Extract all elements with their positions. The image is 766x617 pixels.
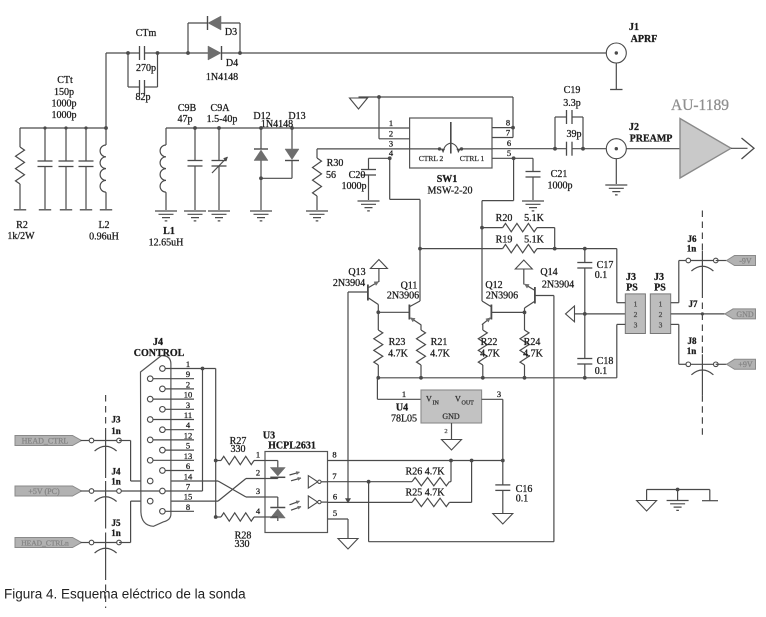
resistor R2	[19, 128, 21, 147]
svg-text:1k/2W: 1k/2W	[7, 231, 35, 242]
wire	[222, 52, 606, 54]
svg-text:4: 4	[186, 420, 191, 430]
resistor R28 330	[216, 516, 221, 518]
pin circles J4	[160, 366, 166, 372]
wire	[106, 52, 140, 54]
svg-text:4.7K: 4.7K	[523, 349, 544, 360]
svg-text:V: V	[455, 395, 461, 404]
svg-text:82p: 82p	[136, 92, 151, 103]
flag GND	[725, 309, 756, 319]
svg-text:78L05: 78L05	[391, 414, 417, 425]
svg-text:14: 14	[184, 472, 193, 482]
resistor R21 4.7K	[417, 330, 426, 365]
flag +5V (PC)	[15, 486, 82, 496]
wire J3R pin3 to J8	[671, 323, 679, 325]
capacitor CTt-2	[65, 128, 67, 161]
svg-text:4: 4	[256, 506, 261, 516]
svg-text:J1: J1	[629, 22, 639, 33]
svg-text:2: 2	[186, 379, 190, 389]
svg-text:1n: 1n	[687, 346, 697, 356]
svg-text:330: 330	[235, 539, 250, 550]
svg-text:2: 2	[659, 310, 663, 319]
svg-text:D4: D4	[226, 58, 238, 69]
svg-text:J4: J4	[112, 467, 122, 477]
capacitor CTt-3	[85, 128, 87, 161]
transistor Q14 2N3904	[534, 287, 536, 304]
svg-text:2: 2	[389, 129, 393, 139]
svg-text:CTRL 2: CTRL 2	[419, 154, 444, 163]
svg-text:12.65uH: 12.65uH	[149, 238, 184, 249]
wire U4 pin3	[482, 398, 503, 400]
dashed enclosure line right	[701, 211, 703, 251]
svg-text:PS: PS	[654, 283, 666, 294]
svg-text:HEAD_CTRL: HEAD_CTRL	[22, 437, 69, 446]
led U3 input 1	[265, 460, 278, 462]
inductor L1	[165, 128, 167, 145]
node SW1 pin4	[388, 156, 392, 160]
wire SW1 pins 7,8 ground	[492, 127, 513, 129]
svg-text:J4: J4	[153, 337, 163, 348]
svg-text:HCPL2631: HCPL2631	[268, 441, 316, 452]
svg-text:AU-1189: AU-1189	[671, 97, 729, 114]
svg-text:J7: J7	[689, 299, 699, 309]
svg-text:3: 3	[256, 486, 260, 496]
svg-text:C9A: C9A	[211, 103, 231, 114]
resistor R25 4.7K	[327, 501, 412, 503]
wire J3 pin3 feed	[616, 324, 618, 377]
wire	[626, 148, 680, 150]
svg-text:47p: 47p	[178, 114, 193, 125]
wire output arrow	[731, 147, 748, 149]
node L2-top junction	[104, 126, 108, 130]
diode D4 1N4148	[208, 46, 221, 60]
wire bottom bus	[377, 377, 616, 379]
capacitor C19 3.3p branch	[553, 147, 557, 151]
svg-text:1: 1	[186, 359, 190, 369]
capacitor C9B 47p	[193, 126, 197, 130]
svg-text:4.7K: 4.7K	[430, 349, 451, 360]
optocoupler U3 HCPL2631	[265, 452, 328, 533]
capacitor C17 0.1	[584, 249, 586, 263]
wire SW1 pin6 row	[492, 148, 567, 150]
flag HEAD_CTRL	[15, 436, 82, 446]
feedthrough J3 1n HEAD_CTRL	[92, 440, 120, 442]
ground arrow GND net	[566, 306, 575, 322]
svg-text:4.7K: 4.7K	[480, 349, 501, 360]
capacitor C9A 1.5-40p trimmer	[217, 126, 221, 130]
capacitor C16 0.1	[502, 461, 504, 485]
svg-text:1n: 1n	[111, 426, 121, 436]
svg-text:0.1: 0.1	[595, 366, 608, 377]
svg-text:1n: 1n	[111, 528, 121, 538]
ground cluster	[647, 489, 710, 491]
svg-text:R21: R21	[431, 337, 448, 348]
svg-text:CTt: CTt	[57, 75, 73, 86]
wire	[119, 440, 131, 442]
svg-text:R24: R24	[524, 337, 541, 348]
switch SW1 MSW-2-20	[410, 118, 492, 168]
svg-text:2N3906: 2N3906	[387, 291, 419, 302]
svg-text:R20: R20	[496, 213, 513, 224]
light arrows	[290, 472, 300, 475]
svg-text:J6: J6	[688, 234, 698, 244]
wire U3 pin8 VCC row	[327, 460, 502, 462]
wire crossover X	[131, 480, 218, 482]
feedthrough J8 1n	[688, 363, 716, 365]
svg-text:3: 3	[659, 321, 663, 330]
svg-text:7: 7	[332, 471, 336, 481]
feedthrough J5 1n HEAD_CTRLn	[92, 542, 120, 544]
connector J1 APRF	[606, 43, 626, 63]
wire J4 pin8 stub	[165, 510, 194, 512]
flag +9V	[716, 363, 727, 365]
svg-text:+5V (PC): +5V (PC)	[28, 487, 60, 496]
dashed enclosure line left	[105, 395, 107, 431]
svg-text:3: 3	[186, 400, 190, 410]
svg-text:15: 15	[184, 492, 193, 502]
svg-text:CONTROL: CONTROL	[134, 348, 185, 359]
wire Q14 collector to Q12 base	[492, 311, 525, 313]
ground	[350, 98, 368, 109]
svg-text:C19: C19	[564, 85, 581, 96]
svg-text:V: V	[426, 395, 432, 404]
svg-text:J3: J3	[626, 272, 636, 283]
svg-text:GND: GND	[442, 412, 460, 421]
svg-text:330: 330	[231, 444, 246, 455]
svg-text:R26 4.7K: R26 4.7K	[406, 467, 446, 478]
svg-text:1n: 1n	[111, 477, 121, 487]
svg-text:CTRL 1: CTRL 1	[460, 154, 485, 163]
wire SW1 pin4 to Q11 collector	[389, 158, 391, 199]
wire Q14 base	[535, 295, 554, 297]
transistor Q12 2N3906	[490, 305, 492, 320]
diode D13 1N4148	[290, 126, 294, 130]
svg-text:-9V: -9V	[739, 256, 752, 265]
svg-text:GND: GND	[736, 310, 754, 319]
svg-text:1N4148: 1N4148	[261, 119, 293, 130]
svg-text:U4: U4	[396, 403, 408, 414]
svg-text:1: 1	[659, 299, 663, 308]
amplifier AU-1189	[680, 119, 731, 179]
svg-text:Q13: Q13	[348, 267, 365, 278]
svg-text:3: 3	[497, 389, 501, 399]
wire J3R pin2 to GND flag	[671, 313, 725, 315]
diode D12 1N4148	[259, 126, 263, 130]
connector J4 CONTROL DB15	[141, 356, 171, 527]
svg-text:5: 5	[186, 441, 190, 451]
svg-text:6: 6	[186, 461, 190, 471]
svg-text:2N3906: 2N3906	[486, 291, 518, 302]
capacitor C20 1000p	[369, 157, 390, 159]
node Q13 base to U3 pin6	[347, 292, 349, 499]
connector J3 PS left	[625, 294, 645, 334]
svg-text:1n: 1n	[687, 244, 697, 254]
svg-text:IN: IN	[433, 401, 440, 407]
wire bus	[166, 127, 410, 129]
svg-text:7: 7	[186, 482, 190, 492]
inductor L2	[105, 128, 107, 145]
ground	[338, 539, 358, 550]
svg-text:J3: J3	[112, 415, 122, 425]
svg-text:11: 11	[184, 410, 192, 420]
svg-text:2N3904: 2N3904	[333, 278, 365, 289]
resistor R30 56	[316, 149, 318, 158]
wire J3R pin1 to J6	[671, 302, 679, 304]
wire J4 pin1 row	[165, 368, 216, 370]
wire pin5 to R20	[513, 158, 515, 200]
wire J4 pin stubs	[150, 378, 194, 380]
svg-text:Q12: Q12	[485, 280, 502, 291]
svg-text:R25 4.7K: R25 4.7K	[406, 488, 446, 499]
svg-text:PS: PS	[626, 283, 638, 294]
svg-text:J3: J3	[654, 272, 664, 283]
svg-text:PREAMP: PREAMP	[630, 134, 673, 145]
transistor Q13 2N3904	[348, 291, 368, 293]
svg-text:J8: J8	[688, 336, 698, 346]
svg-text:8: 8	[332, 450, 336, 460]
svg-text:39p: 39p	[567, 129, 582, 140]
wire	[20, 127, 106, 129]
svg-text:5.1K: 5.1K	[524, 213, 545, 224]
svg-text:C20: C20	[349, 170, 366, 181]
feedthrough J4 1n +5V	[92, 490, 120, 492]
wire +5V riser pins 1-7	[202, 369, 204, 492]
svg-text:1000p: 1000p	[52, 110, 77, 121]
svg-text:8: 8	[186, 502, 190, 512]
svg-text:4: 4	[389, 148, 394, 158]
capacitor C21 1000p	[532, 158, 534, 171]
wire U3 pin5 ground	[327, 518, 348, 520]
diode D3 1N4148	[187, 23, 189, 53]
flag -9V	[716, 260, 727, 262]
svg-text:6: 6	[333, 492, 337, 502]
resistor R23 4.7K	[374, 330, 383, 365]
wire J4 pin7 row	[121, 490, 202, 492]
flag HEAD_CTRLn	[15, 538, 82, 548]
svg-text:56: 56	[326, 170, 336, 181]
resistor R27 330	[216, 460, 221, 462]
svg-text:R23: R23	[389, 337, 406, 348]
trimmer box 270p/82p	[127, 53, 129, 87]
svg-text:R22: R22	[481, 337, 498, 348]
gate U3 out 2	[308, 496, 317, 508]
svg-text:8: 8	[506, 118, 510, 128]
capacitor CTm	[139, 46, 141, 60]
wire pin3 row	[317, 148, 410, 150]
wire U4 pin1	[376, 378, 378, 400]
svg-text:6: 6	[507, 138, 511, 148]
svg-text:0.96uH: 0.96uH	[89, 232, 119, 243]
wire J3 pin1 feed	[616, 249, 618, 303]
svg-text:MSW-2-20: MSW-2-20	[428, 186, 473, 197]
svg-text:3.3p: 3.3p	[563, 98, 581, 109]
svg-text:OUT: OUT	[462, 401, 475, 407]
svg-text:1N4148: 1N4148	[206, 72, 238, 83]
svg-text:5: 5	[507, 148, 511, 158]
svg-text:9: 9	[186, 369, 190, 379]
svg-text:D3: D3	[225, 27, 237, 38]
svg-text:4.7K: 4.7K	[388, 349, 409, 360]
svg-text:L1: L1	[163, 226, 175, 237]
svg-text:1.5-40p: 1.5-40p	[207, 114, 238, 125]
connector J2 PREAMP	[606, 139, 626, 159]
svg-text:C21: C21	[551, 169, 568, 180]
svg-text:J5: J5	[112, 518, 122, 528]
svg-text:R19: R19	[496, 234, 513, 245]
svg-text:2: 2	[444, 428, 447, 435]
capacitor 39p	[566, 142, 568, 156]
svg-text:2N3904: 2N3904	[542, 280, 574, 291]
resistor R26 4.7K	[327, 481, 412, 483]
svg-text:1000p: 1000p	[342, 181, 367, 192]
svg-text:1: 1	[634, 299, 638, 308]
svg-text:L2: L2	[98, 220, 109, 231]
svg-text:1000p: 1000p	[52, 99, 77, 110]
wire SW1 pin2 to ground	[379, 138, 410, 140]
svg-text:3: 3	[634, 321, 638, 330]
svg-text:270p: 270p	[136, 63, 156, 74]
regulator U4 78L05	[421, 390, 482, 423]
svg-text:10: 10	[184, 390, 193, 400]
transistor Q11 2N3906	[408, 305, 410, 320]
feedthrough J6 1n	[688, 260, 716, 262]
svg-text:7: 7	[506, 128, 510, 138]
svg-text:APRF: APRF	[631, 34, 658, 45]
connector J3 PS right	[650, 294, 670, 334]
svg-text:+9V: +9V	[738, 360, 753, 369]
svg-text:12: 12	[184, 430, 193, 440]
resistor R20 5.1K	[480, 226, 484, 230]
capacitor CTt-1	[44, 128, 46, 161]
svg-text:5: 5	[333, 508, 337, 518]
svg-text:HEAD_CTRLn: HEAD_CTRLn	[21, 539, 69, 548]
wire R27-R28 vertical	[215, 369, 217, 518]
svg-text:CTm: CTm	[136, 28, 157, 39]
svg-text:0.1: 0.1	[516, 494, 529, 505]
wire	[105, 53, 107, 128]
svg-text:R30: R30	[327, 158, 344, 169]
svg-text:1: 1	[389, 118, 393, 128]
svg-text:SW1: SW1	[437, 174, 458, 185]
svg-text:2: 2	[256, 468, 260, 478]
svg-text:J2: J2	[629, 122, 639, 133]
capacitor C18 0.1	[577, 358, 592, 360]
gate U3 out 1	[308, 476, 317, 488]
svg-text:1: 1	[256, 450, 260, 460]
svg-text:Q14: Q14	[540, 267, 557, 278]
svg-text:3: 3	[389, 139, 393, 149]
wire U3 pin7 loop to Q14 base	[368, 482, 370, 542]
svg-text:2: 2	[634, 310, 638, 319]
wire SW1 pin5	[492, 157, 533, 159]
svg-text:0.1: 0.1	[595, 270, 608, 281]
svg-text:13: 13	[184, 451, 193, 461]
ground U4	[451, 423, 453, 440]
svg-text:150p: 150p	[54, 87, 74, 98]
resistor R19 5.1K	[420, 248, 503, 250]
resistor R24 4.7K	[520, 330, 529, 365]
wire Q13 collector to Q11 base	[378, 311, 409, 313]
svg-text:5.1K: 5.1K	[524, 234, 545, 245]
wire	[119, 542, 131, 544]
svg-text:1: 1	[402, 389, 406, 399]
svg-text:C9B: C9B	[178, 103, 197, 114]
svg-text:Figura 4. Esquema eléctrico de: Figura 4. Esquema eléctrico de la sonda	[4, 587, 246, 602]
led U3 input 2	[265, 496, 278, 498]
svg-text:R2: R2	[16, 220, 28, 231]
resistor R22 4.7K	[478, 330, 487, 365]
svg-text:1000p: 1000p	[548, 181, 573, 192]
